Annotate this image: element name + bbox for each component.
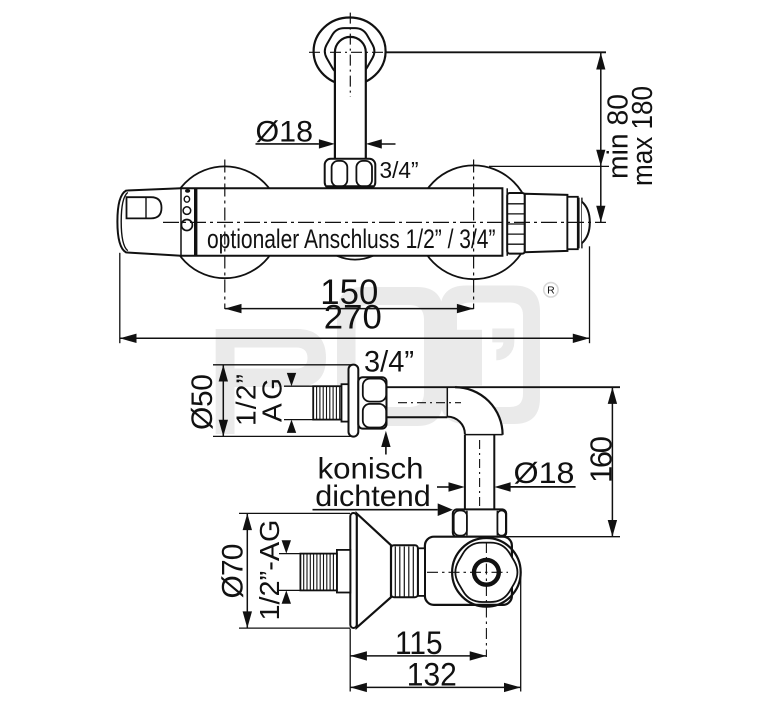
valve thread extension lines — [279, 554, 305, 591]
flange crosshair horizontal — [309, 51, 391, 53]
elbow body fill — [448, 388, 501, 435]
dim 160 arrows — [608, 387, 617, 537]
dim 132 line — [350, 686, 521, 688]
svg-text:AG: AG — [257, 378, 288, 422]
dichtend underline leader — [313, 509, 438, 511]
dim Ø70 line — [246, 513, 248, 628]
valve bonnet circle — [452, 538, 521, 607]
valve stem ring — [474, 560, 499, 585]
union nut facet bottom — [363, 404, 386, 428]
elbow inner arc — [447, 417, 465, 435]
left escutcheon — [169, 166, 281, 278]
wall flange outer circle — [314, 18, 386, 86]
dim 270 line — [120, 337, 590, 339]
union extension line bottom — [213, 435, 352, 437]
dim 270 extension left — [119, 253, 121, 343]
temperature scale dot 1 — [185, 189, 190, 193]
valve bonnet hexagon — [455, 543, 517, 602]
dim 115 arrows — [350, 651, 486, 660]
watermark block b inner bar — [455, 330, 482, 386]
elbow outer arc — [455, 387, 503, 435]
horizontal pipe centerline — [398, 402, 461, 404]
cover ring ribs — [395, 547, 413, 597]
top nut shadow — [327, 185, 373, 189]
watermark registered mark — [544, 283, 558, 297]
dim 150 line — [225, 308, 474, 310]
flange crosshair vertical — [349, 13, 351, 97]
union flange disc — [349, 365, 359, 437]
mixer centerline — [163, 221, 606, 223]
valve crosshair horizontal — [427, 571, 508, 573]
outlet dome — [582, 202, 590, 243]
cartridge ring — [194, 188, 197, 256]
elbow joint line — [446, 387, 448, 417]
top union nut 3/4 — [325, 159, 376, 189]
dim 115 line — [350, 655, 486, 657]
union extension line top — [213, 364, 352, 366]
top nut right facet — [356, 161, 372, 187]
valve collar — [337, 550, 350, 593]
horizontal pipe bottom line — [387, 416, 448, 418]
dim Ø70 arrows — [243, 513, 252, 628]
grip button divider — [145, 197, 147, 218]
svg-text:3/4”: 3/4” — [380, 157, 419, 183]
handle junction line — [180, 188, 182, 256]
dim 132 arrows — [350, 683, 521, 692]
dimension min80/max180 vertical line — [600, 52, 602, 222]
horizontal pipe top line and 160 extension — [387, 386, 621, 388]
dim Ø50 arrows — [219, 365, 228, 437]
knurl ribs — [507, 204, 525, 244]
left escutcheon centerline — [224, 160, 226, 310]
watermark block b inner hook — [492, 329, 514, 361]
outlet cylinder — [567, 197, 577, 249]
svg-text:132: 132 — [407, 657, 457, 693]
collar line right — [506, 188, 508, 256]
svg-text:115: 115 — [395, 625, 443, 661]
union nut — [358, 377, 386, 428]
svg-text:R: R — [547, 285, 555, 297]
svg-text:160: 160 — [583, 436, 618, 483]
temperature scale dot 3 — [183, 207, 191, 215]
dim 115/132 extension right — [520, 568, 522, 692]
dichtend arrow to lower nut — [438, 503, 453, 516]
right cap — [525, 194, 568, 253]
arrow down at escutcheon top — [596, 150, 605, 167]
valve thread dim arrows — [282, 540, 291, 603]
Ø18 arrow head left — [494, 482, 510, 491]
konisch arrow up — [381, 431, 390, 455]
dim Ø50 line — [222, 365, 224, 437]
thread extension lines — [284, 386, 313, 419]
svg-text:Ø18: Ø18 — [514, 457, 575, 490]
Ø18 underline — [508, 486, 576, 488]
Ø18 arrow right-pointing — [319, 139, 335, 148]
dim 270 extension right — [589, 246, 591, 343]
dim 160 extension bottom — [505, 536, 620, 538]
knurled ring — [507, 193, 525, 254]
Ø18 leader line — [256, 143, 319, 145]
right escutcheon centerline — [473, 160, 475, 310]
svg-text:max 180: max 180 — [627, 86, 659, 186]
right escutcheon — [417, 165, 531, 279]
watermark block p — [216, 329, 326, 434]
temperature scale dot 2 — [184, 196, 189, 202]
lower union nut — [453, 509, 506, 536]
lower nut left facet — [454, 511, 467, 536]
Ø18 arrow left-pointing — [366, 139, 396, 148]
spout bump — [337, 256, 373, 260]
ribbed cover ring — [391, 545, 418, 597]
dim 150 arrows — [225, 304, 474, 313]
watermark block b — [440, 286, 540, 425]
arrow down at mixer centerline — [596, 206, 605, 223]
lower nut facet lines — [467, 511, 498, 536]
valve thread lines — [304, 554, 334, 591]
svg-text:270: 270 — [324, 299, 382, 337]
wall reference line — [386, 51, 606, 53]
dim 160 line — [611, 387, 613, 537]
svg-text:Ø70: Ø70 — [216, 544, 249, 599]
valve neck — [418, 548, 425, 596]
dim 270 arrows — [120, 334, 590, 343]
valve centerline vertical — [485, 542, 487, 657]
wall cone — [357, 514, 391, 628]
temperature scale dot 4 — [181, 220, 192, 231]
elbow lower joint line — [465, 434, 503, 436]
outlet grooves — [579, 198, 582, 249]
svg-text:1/2”-AG: 1/2”-AG — [254, 520, 285, 621]
dim 115/132 extension left — [349, 629, 351, 692]
svg-text:dichtend: dichtend — [315, 480, 431, 513]
left cap inner arc — [121, 192, 128, 250]
arrow up at wall line — [596, 53, 605, 70]
svg-text:Ø50: Ø50 — [186, 374, 219, 430]
shower pipe upper — [335, 37, 366, 159]
union thread lines — [317, 386, 340, 419]
union thread — [313, 386, 341, 419]
watermark block g — [337, 287, 443, 426]
top nut left facet — [332, 161, 348, 187]
extension line escutcheon top — [489, 165, 609, 167]
vertical pipe centerline — [479, 440, 481, 508]
wall flange hex nut — [325, 28, 375, 74]
vertical pipe — [465, 435, 494, 510]
svg-text:optionaler Anschluss 1/2” / 3/: optionaler Anschluss 1/2” / 3/4” — [207, 224, 496, 254]
wall cone disc — [350, 513, 356, 628]
thread dim arrows — [287, 373, 296, 433]
svg-text:3/4”: 3/4” — [364, 345, 414, 378]
Ø18 arrow head right — [449, 482, 465, 491]
lower nut right facet — [497, 511, 505, 536]
Ø18 right-pointing arrow — [437, 486, 449, 488]
dim Ø70 extension lines — [239, 513, 350, 628]
mixer body outline — [117, 188, 502, 256]
valve body — [425, 537, 512, 605]
union nut facet top — [363, 379, 386, 402]
valve thread — [300, 554, 337, 591]
grip button — [127, 197, 162, 218]
union collar — [342, 384, 349, 421]
